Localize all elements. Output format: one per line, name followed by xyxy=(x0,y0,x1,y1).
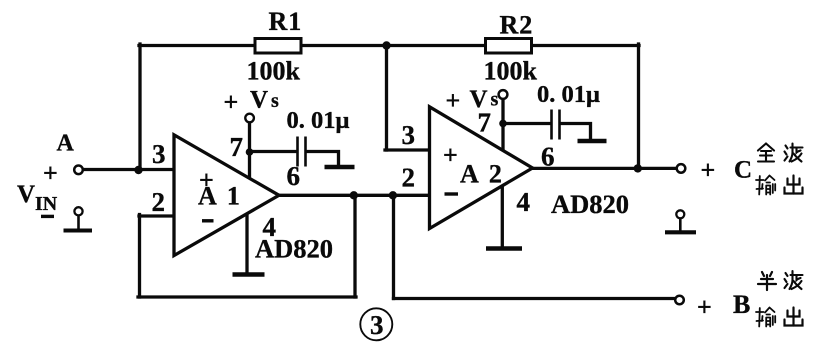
wire: input A to A1 pin 3 xyxy=(83,168,174,171)
wire: A2 output to terminal C xyxy=(531,167,677,170)
svg-text:+: + xyxy=(446,86,461,115)
wire: A2 pin 3 stub xyxy=(385,148,430,151)
svg-text:4: 4 xyxy=(517,187,531,217)
wire: node X vertical down to A2 pin 3 xyxy=(385,44,388,150)
resistor R2 xyxy=(486,39,532,54)
wire: A2 pin 7 to +Vs terminal xyxy=(501,99,504,152)
wire: left vertical from input node up to R1 xyxy=(138,44,141,170)
svg-text:R2: R2 xyxy=(500,11,534,40)
terminal: +Vs (A1) xyxy=(245,114,254,123)
ground (A1 pin 4) xyxy=(233,272,265,277)
wire: A1 pin 2 stub xyxy=(139,214,175,217)
op-amp A2 - input mark xyxy=(445,192,459,195)
label: half-wave output (Chinese) line 2 xyxy=(756,308,803,327)
svg-text:R1: R1 xyxy=(269,7,303,36)
svg-text:A: A xyxy=(57,131,75,157)
input - polarity mark xyxy=(41,215,54,218)
ground (A2 bypass) xyxy=(578,139,607,144)
svg-text:100k: 100k xyxy=(247,57,301,86)
wire: A1 pin2 loop bottom xyxy=(138,295,356,298)
wire: A1 pin 4 to ground xyxy=(245,213,248,273)
op-amp A1 - input mark xyxy=(202,219,214,222)
ground (output side, with terminal) xyxy=(665,210,696,232)
svg-text:+: + xyxy=(224,88,239,117)
svg-text:B: B xyxy=(733,290,750,319)
wire: right vertical from R2 down to output C node xyxy=(637,44,640,168)
svg-text:+: + xyxy=(701,156,716,185)
capacitor C1 0.01u (A1 bypass) plates xyxy=(298,137,306,167)
svg-text:3: 3 xyxy=(152,139,166,169)
svg-text:100k: 100k xyxy=(484,57,538,86)
svg-text:V: V xyxy=(17,181,35,208)
svg-text:+: + xyxy=(43,159,58,188)
terminal: +Vs (A2) xyxy=(499,90,508,99)
junction: node X (R1/R2) xyxy=(382,41,390,49)
ground (A2 pin 4) xyxy=(486,246,522,251)
junction: A1 output / B branch xyxy=(389,191,397,199)
ground (A1 bypass) xyxy=(325,165,355,170)
junction: A1 pin 7 bypass tee xyxy=(246,148,254,156)
label: full-wave output (Chinese) line 2 xyxy=(756,176,803,195)
ground (input, with terminal) xyxy=(64,207,93,230)
op-amp A2 xyxy=(430,107,533,229)
wire: vertical from output node down to B line xyxy=(392,195,395,298)
junction: A2 pin 7 bypass tee xyxy=(499,120,507,128)
wire: half-wave output B line xyxy=(394,297,677,300)
wire: A2 pin 4 to ground xyxy=(501,185,504,246)
terminal: output C xyxy=(677,164,686,173)
junction: output C node xyxy=(634,164,642,172)
svg-text:AD820: AD820 xyxy=(255,233,333,263)
svg-text:+: + xyxy=(697,292,712,321)
junction: input node xyxy=(134,166,142,174)
svg-text:+: + xyxy=(443,140,458,169)
wire: A2 bypass cap right lead to ground xyxy=(561,124,591,141)
wire: input ground stem xyxy=(77,215,80,229)
label: half-wave output (Chinese) line 1 xyxy=(758,271,803,290)
wire: A1 output to A2 pin 2 xyxy=(277,194,430,197)
svg-text:C: C xyxy=(734,157,752,184)
capacitor C2 0.01u (A2 bypass) plates xyxy=(552,110,560,140)
svg-text:0. 01μ: 0. 01μ xyxy=(287,107,350,134)
svg-text:V: V xyxy=(250,87,268,114)
wire: top feedback bus from input node through R1/R2 to output C xyxy=(139,44,639,47)
wire: A1 pin2 loop right vertical to output node xyxy=(353,196,356,297)
svg-text:2: 2 xyxy=(152,187,166,217)
svg-text:3: 3 xyxy=(370,310,384,340)
wire: A2 bypass cap left lead xyxy=(503,122,550,125)
svg-text:A 1: A 1 xyxy=(198,182,242,211)
svg-text:IN: IN xyxy=(35,193,58,215)
wire: A1 bypass cap right lead to ground xyxy=(307,152,339,167)
terminal: output B xyxy=(675,296,684,305)
wire: A1 pin2 loop left vertical xyxy=(138,215,141,298)
figure number circled 3 xyxy=(360,308,392,340)
svg-text:s: s xyxy=(271,90,279,112)
junction: A1 output / feedback xyxy=(350,191,358,199)
wire: A1 pin 7 to +Vs terminal xyxy=(248,123,251,181)
svg-text:3: 3 xyxy=(402,120,416,150)
svg-text:0. 01μ: 0. 01μ xyxy=(537,81,600,108)
svg-text:V: V xyxy=(470,86,488,113)
svg-text:AD820: AD820 xyxy=(551,189,629,219)
svg-text:A 2: A 2 xyxy=(460,160,504,189)
svg-text:7: 7 xyxy=(230,132,244,162)
wire: A1 bypass cap left lead xyxy=(250,150,297,153)
wire: output C ground stem xyxy=(679,218,682,231)
svg-text:s: s xyxy=(491,89,499,111)
terminal: input A xyxy=(74,166,83,175)
resistor R1 xyxy=(255,39,301,54)
svg-text:6: 6 xyxy=(541,142,555,172)
op-amp A1 xyxy=(174,135,279,256)
label: full-wave output (Chinese) line 1 xyxy=(758,144,803,162)
svg-text:2: 2 xyxy=(402,163,416,193)
